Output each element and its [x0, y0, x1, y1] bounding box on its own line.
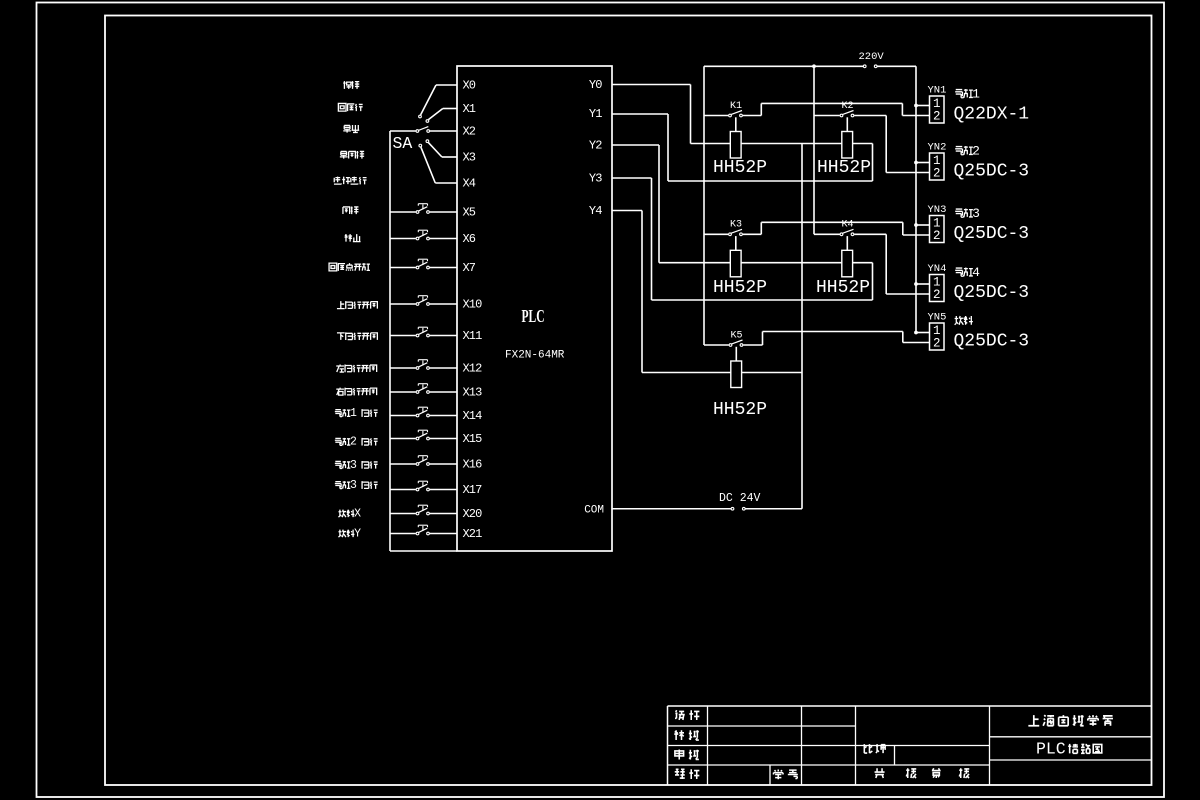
pushbutton switch for X7 — [390, 259, 457, 269]
svg-text:X3: X3 — [463, 151, 476, 165]
relay coil K4 HH52P — [842, 236, 853, 277]
svg-text:Q25DC-3: Q25DC-3 — [954, 283, 1030, 303]
relay coil K5 HH52P — [731, 347, 742, 388]
label HH52P K4 — [816, 278, 870, 298]
svg-text:X1: X1 — [463, 102, 476, 116]
title cell label scale — [864, 744, 885, 753]
input label 上限位开关 — [337, 301, 377, 309]
svg-text:K2: K2 — [841, 101, 853, 112]
220V bus left segment — [704, 65, 863, 67]
pushbutton switch for X13 — [390, 384, 457, 394]
relay contact K2 — [840, 111, 854, 117]
svg-text:220V: 220V — [859, 51, 885, 63]
svg-text:YN4: YN4 — [928, 263, 947, 275]
svg-text:PLC: PLC — [1036, 739, 1066, 758]
selector SA contact X2 — [427, 130, 430, 133]
label DC 24V — [719, 492, 761, 505]
title cell label class — [675, 769, 700, 779]
pin label X20 — [463, 507, 483, 521]
solenoid valve YN4 terminal block — [930, 275, 945, 302]
label SA — [393, 134, 413, 153]
selector SA blade — [419, 127, 428, 131]
label K4 — [841, 220, 853, 231]
svg-text:2: 2 — [350, 436, 357, 449]
selector SA contact X0 — [419, 115, 422, 118]
relay contact K5 — [729, 340, 743, 346]
svg-text:2: 2 — [972, 144, 980, 159]
solenoid valve YN5 terminal block — [930, 323, 945, 350]
label Q25DC-3 for YN3 — [954, 224, 1030, 244]
svg-text:DC 24V: DC 24V — [719, 492, 761, 505]
pin label Y2 — [589, 138, 602, 152]
input label 左限位开关 — [336, 365, 376, 373]
solenoid valve YN2 terminal block — [930, 153, 945, 180]
svg-text:X0: X0 — [463, 79, 476, 93]
220V switch contact left — [863, 65, 866, 68]
rotary selector switch SA common wire — [390, 130, 416, 132]
wire Y4 output — [612, 211, 642, 373]
wire rail to K1 — [704, 115, 728, 117]
svg-text:X6: X6 — [463, 232, 476, 246]
pin label Y4 — [589, 204, 602, 218]
input label 气缸3 限位 — [335, 459, 378, 472]
220V bus right segment — [877, 65, 916, 67]
label PLC — [521, 308, 544, 327]
pin label X2 — [463, 125, 476, 139]
svg-text:HH52P: HH52P — [713, 400, 767, 420]
label K2 — [841, 101, 853, 112]
input label 下限位开关 — [337, 332, 377, 340]
wire DC24V switch to common vertical — [745, 508, 802, 510]
wire row2 bottom — [652, 299, 873, 301]
pin label X13 — [463, 386, 483, 400]
svg-text:X20: X20 — [463, 507, 483, 521]
input label 收料X — [338, 508, 361, 521]
pushbutton switch for X12 — [390, 360, 457, 370]
pin label Y3 — [589, 172, 602, 186]
pin label X4 — [463, 177, 476, 191]
pushbutton switch for X5 — [390, 204, 457, 214]
svg-text:Y1: Y1 — [589, 107, 602, 121]
junction 220V bus / K2K4 rail — [812, 64, 816, 68]
wire Y2 to relay coil row2 — [659, 262, 873, 264]
svg-text:2: 2 — [933, 109, 941, 123]
DC24V switch contact left — [731, 507, 734, 510]
svg-text:3: 3 — [350, 479, 357, 492]
220V switch contact right — [874, 65, 877, 68]
input label 回原点开始 — [329, 263, 370, 271]
solenoid valve YN1 terminal block — [930, 96, 945, 123]
label 收料 for YN5 — [955, 316, 973, 325]
phase rail for K1 K3 K5 — [703, 66, 705, 345]
input common rail (left vertical bus) — [389, 131, 391, 551]
label 气缸2 for YN2 — [955, 144, 980, 159]
pushbutton switch for X16 — [390, 456, 457, 466]
wire K4 to YN4 pin2 — [854, 234, 929, 294]
svg-text:3: 3 — [350, 459, 357, 472]
pushbutton switch for X10 — [390, 296, 457, 306]
pin label X5 — [463, 206, 476, 220]
pin label X7 — [463, 261, 476, 275]
wire common return vertical — [801, 144, 803, 509]
svg-text:1: 1 — [972, 87, 980, 102]
pin 1 wire YN1 — [914, 104, 929, 108]
svg-text:YN2: YN2 — [928, 142, 947, 154]
PLC main box FX2N-64MR — [457, 66, 612, 551]
pin label X14 — [463, 409, 483, 423]
pin label X12 — [463, 362, 483, 376]
pin numbers YN4 — [933, 276, 941, 302]
input label 启动 — [343, 206, 359, 214]
label Q25DC-3 for YN2 — [954, 162, 1030, 182]
relay coil K3 HH52P — [730, 236, 741, 277]
wire row1 bottom — [668, 180, 873, 182]
wire SA contact to X3 — [428, 143, 457, 157]
pin numbers YN5 — [933, 324, 941, 350]
label Q22DX-1 for YN1 — [954, 105, 1030, 125]
selector SA contact X1 — [426, 120, 429, 123]
relay coil K1 HH52P — [730, 117, 741, 158]
pin label X1 — [463, 102, 476, 116]
wire K2 to YN2 pin2 — [854, 116, 929, 173]
relay contact K1 — [729, 111, 743, 117]
title sheets row total sheet no sheet — [875, 768, 970, 778]
pin label X16 — [463, 458, 483, 472]
label K1 — [730, 101, 742, 112]
pin label X10 — [463, 298, 483, 312]
title cell label review — [675, 749, 699, 759]
label YN2 — [928, 142, 947, 154]
pin numbers YN2 — [933, 154, 941, 180]
label HH52P K5 — [713, 400, 767, 420]
wire rail to K4 — [814, 233, 840, 235]
wire K5 to YN5 pin2 — [743, 332, 929, 346]
svg-text:HH52P: HH52P — [817, 158, 871, 178]
svg-text:X14: X14 — [463, 409, 483, 423]
pin label X15 — [463, 432, 483, 446]
pin 1 wire YN3 — [914, 223, 929, 227]
wire Y2 output — [612, 145, 659, 263]
DC24V switch contact right — [742, 507, 745, 510]
wire row1 right link — [872, 144, 874, 182]
pushbutton switch for X15 — [390, 430, 457, 440]
input label 手动 — [343, 81, 359, 89]
label YN3 — [928, 204, 947, 216]
label Q25DC-3 for YN4 — [954, 283, 1030, 303]
label HH52P K3 — [713, 278, 767, 298]
wire COM to DC24V switch — [612, 508, 731, 510]
wire rail to K5 — [704, 344, 729, 346]
wire Y1 output — [612, 114, 668, 181]
pin label Y1 — [589, 107, 602, 121]
svg-text:2: 2 — [933, 288, 941, 302]
svg-text:K5: K5 — [730, 330, 742, 341]
title cell label check — [674, 730, 699, 740]
svg-text:X13: X13 — [463, 386, 483, 400]
label FX2N-64MR — [505, 350, 565, 362]
wire SA to X2 — [430, 130, 457, 132]
wire K3 to YN3 pin2 — [743, 222, 930, 235]
svg-text:YN1: YN1 — [928, 85, 947, 97]
pin label X11 — [463, 329, 483, 343]
svg-text:4: 4 — [972, 265, 980, 280]
pin label X3 — [463, 151, 476, 165]
svg-text:Q22DX-1: Q22DX-1 — [954, 105, 1030, 125]
title block grid — [668, 706, 1152, 785]
input label 回原位 — [338, 103, 362, 111]
relay coil K2 HH52P — [842, 117, 853, 158]
title school name Shanghai Dianji University — [1028, 715, 1113, 726]
input label 气缸3 限位 — [335, 479, 378, 492]
label YN1 — [928, 85, 947, 97]
label HH52P K1 — [713, 158, 767, 178]
pin label X21 — [463, 527, 483, 541]
selector SA contact X4 — [419, 144, 422, 147]
input label 单步 — [343, 125, 359, 133]
svg-text:YN3: YN3 — [928, 204, 947, 216]
svg-text:HH52P: HH52P — [816, 278, 870, 298]
svg-text:X12: X12 — [463, 362, 483, 376]
selector SA common contact — [416, 130, 419, 133]
wire K1 to YN1 pin2 — [743, 103, 930, 115]
svg-text:X2: X2 — [463, 125, 476, 139]
pushbutton switch for X17 — [390, 481, 457, 491]
input label 收料Y — [338, 528, 361, 541]
svg-text:Y4: Y4 — [589, 204, 602, 218]
input label 连续运行 — [334, 177, 367, 185]
pin label Y0 — [589, 78, 602, 92]
pushbutton switch for X21 — [390, 525, 457, 535]
label 气缸1 for YN1 — [955, 87, 980, 102]
phase rail for K2 K4 — [813, 66, 815, 234]
svg-text:X21: X21 — [463, 527, 483, 541]
label HH52P K2 — [817, 158, 871, 178]
wire SA contact to X4 — [421, 147, 457, 183]
svg-text:X17: X17 — [463, 483, 483, 497]
title cell label student id — [774, 770, 798, 780]
pin numbers YN3 — [933, 217, 941, 243]
svg-text:Y2: Y2 — [589, 138, 602, 152]
selector SA contact X3 — [426, 140, 429, 143]
svg-text:Q25DC-3: Q25DC-3 — [954, 332, 1030, 352]
wire Y4 to relay coil K5 — [642, 372, 802, 374]
svg-text:YN5: YN5 — [928, 312, 947, 324]
pin label X17 — [463, 483, 483, 497]
relay contact K4 — [840, 229, 854, 235]
svg-text:X10: X10 — [463, 298, 483, 312]
title drawing name PLC wiring diagram — [1036, 739, 1102, 758]
label K5 — [730, 330, 742, 341]
svg-text:2: 2 — [933, 166, 941, 180]
valve supply rail — [915, 66, 917, 332]
label 气缸3 for YN3 — [955, 206, 980, 221]
pin 1 wire YN4 — [914, 282, 929, 286]
wire rail to K2 — [814, 115, 840, 117]
input label 气缸2 限位 — [335, 436, 378, 449]
input label 气缸1 限位 — [335, 407, 378, 420]
svg-text:K3: K3 — [730, 220, 742, 231]
svg-text:3: 3 — [972, 206, 980, 221]
label 220V — [859, 51, 885, 63]
input label 停止 — [345, 234, 361, 241]
svg-text:Y: Y — [354, 528, 361, 541]
wire rail to PLC box bottom — [390, 550, 457, 552]
svg-text:FX2N-64MR: FX2N-64MR — [505, 350, 565, 362]
wire rail to K3 — [704, 233, 728, 235]
svg-text:X5: X5 — [463, 206, 476, 220]
relay contact K3 — [729, 229, 743, 235]
input label 右限位开关 — [336, 388, 376, 396]
label K3 — [730, 220, 742, 231]
pushbutton switch for X14 — [390, 407, 457, 417]
pin label X6 — [463, 232, 476, 246]
wire row2 right link — [872, 263, 874, 300]
wire Y3 output — [612, 178, 652, 300]
label YN4 — [928, 263, 947, 275]
label Q25DC-3 for YN5 — [954, 332, 1030, 352]
svg-text:K4: K4 — [841, 220, 853, 231]
wire SA contact to X0 — [421, 85, 457, 115]
svg-text:X: X — [354, 508, 361, 521]
pushbutton switch for X11 — [390, 327, 457, 337]
wire SA contact to X1 — [428, 109, 457, 120]
input label 单周期 — [340, 151, 364, 159]
pin label X0 — [463, 79, 476, 93]
svg-text:PLC: PLC — [521, 308, 544, 327]
svg-text:1: 1 — [350, 407, 357, 420]
svg-text:Y0: Y0 — [589, 78, 602, 92]
svg-text:X15: X15 — [463, 432, 483, 446]
svg-text:HH52P: HH52P — [713, 278, 767, 298]
pin label COM — [584, 504, 604, 516]
svg-text:Q25DC-3: Q25DC-3 — [954, 224, 1030, 244]
svg-text:X4: X4 — [463, 177, 476, 191]
pin 1 wire YN2 — [914, 161, 929, 165]
svg-text:K1: K1 — [730, 101, 742, 112]
pushbutton switch for X6 — [390, 230, 457, 240]
title cell label design — [675, 710, 699, 720]
svg-text:Q25DC-3: Q25DC-3 — [954, 162, 1030, 182]
svg-text:Y3: Y3 — [589, 172, 602, 186]
wire Y0 to relay coil row1 — [691, 143, 873, 145]
svg-text:SA: SA — [393, 134, 413, 153]
svg-text:2: 2 — [933, 336, 941, 350]
svg-text:X16: X16 — [463, 458, 483, 472]
svg-text:X7: X7 — [463, 261, 476, 275]
wire Y0 output — [612, 85, 691, 144]
pushbutton switch for X20 — [390, 505, 457, 515]
solenoid valve YN3 terminal block — [930, 216, 945, 243]
label YN5 — [928, 312, 947, 324]
svg-text:2: 2 — [933, 229, 941, 243]
pin numbers YN1 — [933, 97, 941, 123]
label 气缸4 for YN4 — [955, 265, 980, 280]
pin 1 wire YN5 — [914, 331, 929, 335]
svg-text:COM: COM — [584, 504, 604, 516]
svg-text:X11: X11 — [463, 329, 483, 343]
svg-text:HH52P: HH52P — [713, 158, 767, 178]
